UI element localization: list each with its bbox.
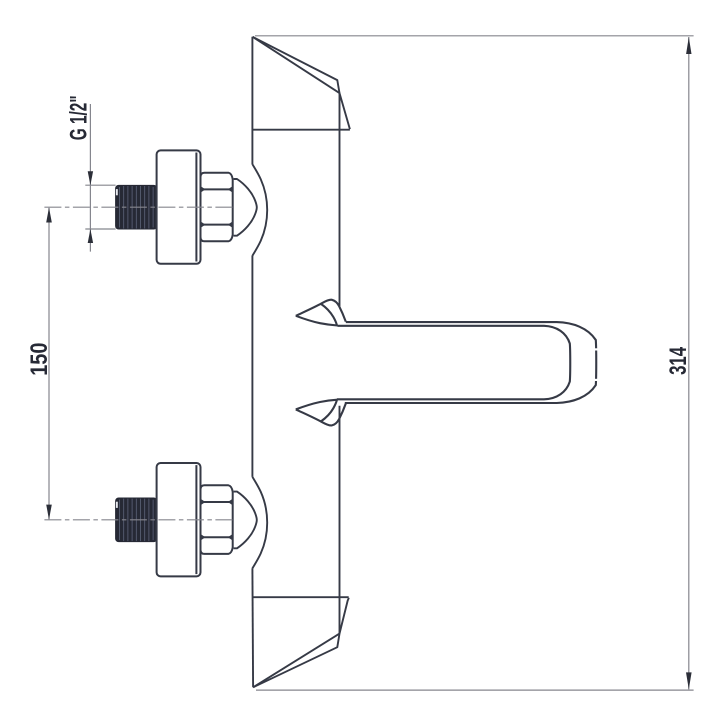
lower thread (hatched block) — [116, 498, 157, 542]
lower hex nut facet wedge left 1 — [201, 499, 206, 505]
upper flange face line — [195, 153, 197, 262]
upper hex nut facet line 2 — [201, 224, 233, 226]
lower hex nut outline — [201, 485, 233, 554]
upper thread notch highlight — [116, 189, 118, 195]
bottom wing outer curve — [296, 404, 346, 426]
upper hex nut facet wedge left 1 — [201, 186, 206, 192]
bottom wing fold curve — [321, 400, 337, 422]
extension line G 1/2 top — [85, 184, 115, 186]
bottom wedge inner slant — [253, 634, 339, 688]
dimension line 150 — [48, 208, 50, 520]
lower flange — [157, 463, 201, 576]
centerline upper connector — [44, 206, 234, 208]
svg-text:150: 150 — [25, 343, 52, 376]
extension line bottom (for 314) — [256, 689, 694, 691]
svg-text:G 1/2": G 1/2" — [66, 95, 92, 140]
lower thread streaks — [120, 499, 154, 541]
upper hex nut facet wedge left 2 — [201, 222, 206, 228]
lower hex nut facet line 2 — [201, 536, 233, 538]
upper cup outer arc — [252, 164, 267, 256]
body right edge upper segment — [339, 93, 341, 306]
upper hex nut facet wedge right 1 — [228, 186, 233, 192]
spout outer outline — [345, 322, 596, 403]
upper thread streaks — [120, 186, 154, 229]
body left edge upper segment — [251, 37, 253, 165]
arrowhead 314 bottom — [686, 672, 692, 689]
lower hex nut facet line 1 — [201, 501, 233, 503]
top wing outer curve — [296, 300, 346, 322]
top wedge outer slant — [253, 37, 350, 129]
bottom wing lower curve — [296, 400, 338, 410]
lower hex nut facet wedge right 1 — [228, 499, 233, 505]
top wing lower curve — [296, 316, 338, 326]
extension line G 1/2 bottom — [85, 228, 115, 230]
spout inner outline — [337, 326, 570, 400]
dimension line G 1/2 — [89, 104, 91, 252]
lower hex nut facet wedge left 2 — [201, 534, 206, 540]
bottom wedge top line — [252, 596, 349, 598]
upper cup inner arc — [234, 179, 257, 236]
top wedge bottom line — [253, 129, 350, 131]
upper hex nut facet line 1 — [201, 188, 233, 190]
dimension line 314 — [688, 37, 690, 689]
upper hex nut outline — [201, 173, 233, 242]
top wedge inner slant — [253, 37, 340, 93]
arrowhead 314 top — [686, 37, 691, 54]
arrowhead 150 top — [46, 208, 52, 223]
spout cap highlight gap upper — [594, 348, 598, 350]
svg-text:314: 314 — [665, 347, 692, 375]
upper thread (hatched block) — [116, 185, 157, 229]
centerline lower connector — [44, 519, 234, 521]
lower hex nut facet wedge right 2 — [228, 534, 233, 540]
lower cup inner arc — [234, 492, 257, 549]
bottom wedge outer slant — [253, 598, 349, 687]
arrowhead G 1/2 upper (points down) — [88, 171, 93, 185]
lower thread notch highlight — [116, 502, 118, 508]
extension line top (for 314) — [255, 35, 694, 37]
arrowhead 150 bottom — [46, 505, 52, 520]
body left edge lower segment — [251, 568, 254, 687]
lower flange face line — [195, 465, 197, 574]
lower cup outer arc — [252, 477, 267, 569]
body right edge lower segment — [339, 406, 341, 634]
arrowhead G 1/2 lower (points up) — [88, 229, 93, 243]
upper hex nut facet wedge right 2 — [228, 222, 233, 228]
top wing fold curve — [321, 304, 337, 326]
upper flange — [157, 150, 201, 263]
body left edge middle segment — [251, 256, 253, 477]
spout cap highlight gap lower — [594, 379, 598, 381]
